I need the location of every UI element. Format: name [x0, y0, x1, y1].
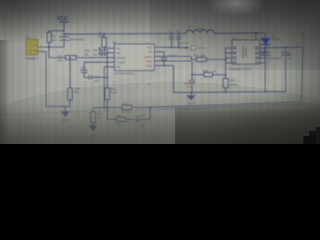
grid dots: [0, 7, 306, 109]
capacitor C15: [184, 75, 196, 93]
black corner object: [304, 127, 320, 144]
photo shading top-right: [150, 0, 320, 70]
resistor R26: [117, 114, 135, 127]
wire header pin2 to ground: [38, 52, 70, 107]
svg-text:TPS40210DGQ: TPS40210DGQ: [114, 71, 136, 75]
ground OUT- right: [186, 92, 195, 105]
resistor R11: [194, 54, 226, 62]
photo vignette bottom-center: [0, 82, 320, 222]
photo shading top-left: [0, 0, 130, 60]
bright blotch: [135, 68, 275, 124]
capacitor C12: [84, 75, 107, 83]
svg-text:470: 470: [94, 79, 99, 83]
wire VOUT rail: [266, 46, 303, 49]
ground OUT- middle: [88, 126, 97, 139]
wire ISNS pin: [161, 61, 193, 75]
node gate bus: [225, 59, 227, 61]
op-amp U1 TPS40210: [109, 41, 161, 76]
wire GND pin: [161, 65, 174, 93]
border inner: [160, 32, 309, 110]
node gnd rail taps: [191, 91, 193, 93]
screen streaks: [0, 0, 320, 144]
resistor R18: [203, 69, 226, 77]
wire drain drop: [255, 33, 257, 40]
resistor R14: [90, 108, 102, 126]
wire comp chain vertical: [106, 50, 108, 88]
capacitor C10: [85, 47, 108, 54]
inductor L1: [186, 25, 214, 34]
wire R26 branch: [107, 118, 116, 120]
svg-text:FB: FB: [117, 65, 121, 69]
wire rail L1 to D1: [214, 32, 266, 34]
wire GDRV pin: [161, 56, 197, 59]
net flag OUT+: [185, 46, 206, 50]
capacitor C14: [136, 107, 150, 127]
capacitor C17: [281, 48, 293, 92]
wire FB sense row: [93, 107, 122, 109]
node C12 chain: [106, 77, 108, 79]
svg-text:COMP: COMP: [117, 60, 126, 64]
wire VCC top rail: [64, 32, 186, 35]
resistor R1: [47, 31, 64, 47]
photo shading right edge: [280, 0, 320, 144]
capacitor C11: [84, 53, 108, 57]
power VCC: [57, 16, 69, 34]
wire FB pin: [104, 67, 108, 108]
resistor R3: [49, 47, 76, 62]
transistor Q2 SI4850EY: [226, 36, 269, 70]
node sense top: [225, 74, 227, 76]
diode D1: [261, 33, 280, 48]
wire header pin1 node: [38, 46, 64, 48]
capacitor C9: [161, 53, 178, 65]
photo background paper: [0, 0, 320, 144]
node ISNS row: [191, 74, 193, 76]
photo shading bottom below border: [0, 91, 320, 189]
photo vignette bottom-left: [0, 103, 120, 227]
wire DIS pin: [76, 57, 108, 59]
photo shading left band: [0, 0, 46, 144]
wire COMP pin: [84, 62, 108, 70]
wire SS pin: [100, 52, 109, 54]
resistor R16: [68, 58, 81, 107]
node sense junction: [149, 106, 151, 108]
node drain tap: [255, 32, 257, 34]
node FB sense: [103, 107, 105, 109]
border faint left: [0, 109, 160, 114]
capacitor C13: [80, 66, 87, 78]
photo vignette bottom-right corner: [190, 80, 320, 230]
photo shading bottom right extra: [175, 102, 320, 144]
wire BP pin: [161, 52, 164, 58]
node C17 tap: [285, 47, 287, 49]
resistor R13: [105, 87, 118, 119]
svg-text:C13: C13: [80, 66, 86, 70]
wire gate bus vertical: [225, 48, 227, 75]
wire VOUT sense long: [150, 102, 301, 107]
wire ISNS row: [192, 74, 204, 76]
node C19 tap: [264, 47, 266, 49]
photo shading left edge: [0, 40, 10, 144]
resistor R2: [98, 31, 107, 48]
capacitor C1: [169, 30, 184, 49]
wire VDD to OUT+ flag: [161, 46, 190, 49]
connector P1 Header 2: [25, 36, 39, 61]
capacitor C19: [260, 48, 282, 92]
wire RC pin: [104, 47, 109, 49]
photo glare top: [206, 0, 266, 16]
capacitor C4: [59, 32, 83, 47]
photo shading top: [0, 0, 320, 46]
wire sense return vertical: [301, 47, 303, 102]
capacitor C5: [176, 30, 189, 49]
resistor R20: [122, 102, 150, 114]
resistor R15: [223, 75, 237, 92]
ground OUT- left: [61, 106, 71, 122]
node R3 / R16: [69, 57, 71, 59]
wire bottom ground rail: [174, 92, 286, 93]
node pin1/R3 junction: [48, 46, 50, 48]
